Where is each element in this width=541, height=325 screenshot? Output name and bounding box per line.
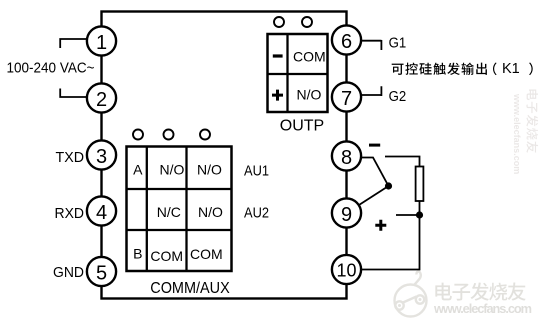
svg-text:A: A xyxy=(133,162,143,178)
svg-text:2: 2 xyxy=(96,89,107,111)
terminal 9 xyxy=(332,198,361,227)
svg-text:COM: COM xyxy=(150,248,183,264)
COMM/AUX block grid xyxy=(127,147,232,272)
svg-text:10: 10 xyxy=(336,260,356,280)
svg-text:B: B xyxy=(133,246,142,262)
OUTP screw terminal A xyxy=(274,17,284,27)
svg-text:3: 3 xyxy=(96,146,107,168)
svg-text:8: 8 xyxy=(341,147,352,169)
wire: load bottom to terminal 10 xyxy=(347,201,420,270)
terminal 2 xyxy=(87,83,116,112)
watermark right edge rotated xyxy=(512,89,538,174)
svg-text:AU1: AU1 xyxy=(244,162,269,179)
terminal 1 xyxy=(87,26,116,55)
wire: AC stub to terminal 1 xyxy=(60,39,88,48)
svg-text:7: 7 xyxy=(341,88,352,110)
OUTP cell plus xyxy=(272,90,283,101)
svg-text:COM: COM xyxy=(293,49,326,65)
svg-text:100-240 VAC~: 100-240 VAC~ xyxy=(7,59,95,76)
terminal 5 xyxy=(87,257,116,286)
device body outline xyxy=(102,12,347,299)
svg-text:RXD: RXD xyxy=(55,205,85,222)
label thyristor trigger output K1 xyxy=(392,61,533,77)
svg-text:4: 4 xyxy=(96,202,107,224)
svg-text:5: 5 xyxy=(96,262,107,284)
svg-text:K1: K1 xyxy=(502,61,520,77)
terminal 6 xyxy=(332,25,361,54)
wire: thermocouple plus from terminal 9 xyxy=(347,186,389,213)
terminal 10 xyxy=(332,255,361,284)
svg-text:www.elecfans.com: www.elecfans.com xyxy=(512,93,522,174)
svg-text:OUTP: OUTP xyxy=(280,118,324,135)
svg-text:G2: G2 xyxy=(389,88,407,105)
junction dot thermocouple xyxy=(385,182,392,189)
svg-text:N/C: N/C xyxy=(157,204,181,220)
wire: G1 stub from terminal 6 xyxy=(360,40,381,50)
svg-text:9: 9 xyxy=(341,204,352,226)
wire: G2 stub from terminal 7 xyxy=(360,86,381,96)
terminal 8 xyxy=(332,141,361,170)
svg-text:N/O: N/O xyxy=(160,162,185,178)
svg-text:1: 1 xyxy=(96,32,107,54)
COMM/AUX screw terminal C xyxy=(200,130,210,140)
svg-text:TXD: TXD xyxy=(56,149,85,166)
terminal 4 xyxy=(87,196,116,225)
svg-text:N/O: N/O xyxy=(197,162,222,178)
terminal 7 xyxy=(332,82,361,111)
svg-text:N/O: N/O xyxy=(198,204,223,220)
terminal 3 xyxy=(87,140,116,169)
svg-text:GND: GND xyxy=(53,264,84,281)
junction dot load xyxy=(416,211,423,218)
svg-text:G1: G1 xyxy=(389,35,407,52)
watermark logo elecfans (bottom right) xyxy=(395,272,427,317)
COMM/AUX screw terminal A xyxy=(133,130,143,140)
COMM/AUX screw terminal B xyxy=(164,130,174,140)
resistor load RL xyxy=(416,167,424,202)
svg-text:N/O: N/O xyxy=(297,87,322,103)
OUTP screw terminal B xyxy=(302,17,312,27)
svg-text:6: 6 xyxy=(341,31,352,53)
wire: AC stub to terminal 2 xyxy=(60,89,88,98)
label plus at terminal 9 xyxy=(375,220,386,231)
label minus at terminal 8 xyxy=(369,144,380,147)
OUTP relay block grid xyxy=(268,34,328,112)
OUTP cell minus xyxy=(273,54,283,57)
wire: load top from minus xyxy=(385,157,420,167)
svg-text:AU2: AU2 xyxy=(244,204,269,221)
wire: thermocouple minus from terminal 8 xyxy=(347,158,389,187)
svg-text:COMM/AUX: COMM/AUX xyxy=(150,280,230,297)
svg-text:www.elecfans.com: www.elecfans.com xyxy=(433,301,532,316)
wire: plus stub to load xyxy=(396,214,420,216)
watermark text dianzifashaoyou xyxy=(435,282,525,300)
svg-text:COM: COM xyxy=(190,246,223,262)
